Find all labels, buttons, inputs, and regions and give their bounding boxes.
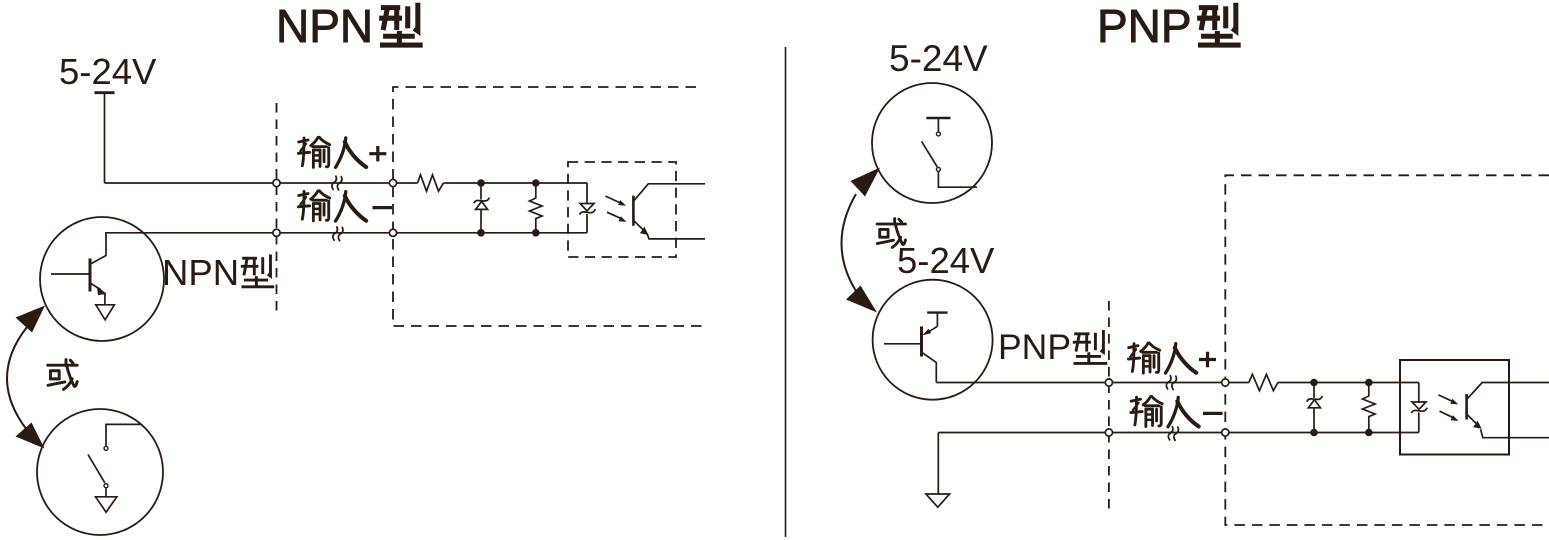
dashed boundary line (connector) (276, 103, 278, 311)
center divider (785, 47, 787, 537)
node input+ at connector (273, 179, 280, 186)
wire: input- rail (105, 232, 587, 234)
LED of optocoupler (1411, 383, 1427, 433)
outer dashed box (driver unit) (1225, 175, 1549, 525)
svg-text:NPN: NPN (276, 0, 373, 52)
or-arrow arc (842, 194, 857, 291)
resistor R2 (shunt) (530, 183, 543, 233)
label 或 (48, 360, 77, 390)
label 5-24V (supply) (59, 51, 157, 92)
LED of optocoupler (580, 183, 596, 233)
sensor circle (switch output) (37, 409, 163, 535)
junction dot (477, 179, 485, 187)
phototransistor Q (633, 184, 705, 239)
ground symbol (926, 494, 950, 507)
wire: input- rail (938, 432, 1419, 434)
wire: input+ rail (105, 182, 418, 184)
resistor R1 (series) (418, 175, 444, 191)
label 5-24V (bottom sensor) (897, 240, 995, 281)
wire break mark on input+ (332, 176, 342, 191)
or-arrow head bottom (16, 423, 45, 449)
node input- at board edge (389, 229, 396, 236)
label NPN型 (162, 252, 239, 293)
light arrow (606, 196, 621, 203)
sensor circle (switch) (872, 83, 992, 203)
wire break mark on input+ (1166, 375, 1176, 390)
wire: input+ rail after resistor (1278, 382, 1419, 384)
label 输入+ (298, 137, 329, 167)
svg-text:5-24V: 5-24V (889, 38, 988, 79)
label 5-24V (top sensor) (889, 38, 988, 79)
label 或 (877, 219, 906, 248)
junction dot (477, 229, 485, 237)
zener diode D1 (474, 183, 490, 233)
NPN transistor in sensor (51, 233, 114, 320)
svg-text:5-24V: 5-24V (59, 51, 157, 92)
or-arrow head top (851, 168, 881, 197)
label 输入- (1131, 397, 1162, 427)
junction dot (532, 229, 540, 237)
label PNP型 (998, 327, 1071, 367)
or-arrow head bottom (846, 286, 877, 313)
light arrow (607, 212, 621, 218)
node input- at connector (1105, 429, 1112, 436)
node input- at connector (273, 229, 280, 236)
wire break mark on input- (333, 226, 343, 241)
svg-text:5-24V: 5-24V (897, 240, 995, 281)
PNP transistor in sensor (884, 312, 948, 383)
node input+ at board edge (389, 179, 396, 186)
title PNP型 (1097, 0, 1192, 52)
junction dot (532, 179, 540, 187)
label 输入- (298, 191, 329, 221)
junction dot (1365, 379, 1373, 387)
resistor R4 (shunt) (1363, 383, 1376, 433)
wire: input+ rail (936, 382, 1249, 384)
node input+ at connector (1105, 379, 1112, 386)
node input- at board edge (1222, 429, 1229, 436)
light arrow (1440, 411, 1454, 417)
optocoupler solid box (1400, 360, 1509, 455)
junction dot (1365, 429, 1373, 437)
junction dot (1310, 429, 1318, 437)
or-arrow head top (16, 306, 46, 333)
wire: supply drop (104, 93, 106, 183)
node input+ at board edge (1222, 379, 1229, 386)
wire break mark on input- (1168, 426, 1178, 441)
switch in sensor (922, 118, 978, 187)
wire: ground drop (937, 433, 939, 495)
switch in sensor (88, 424, 142, 512)
zener diode D2 (1307, 383, 1323, 433)
sensor circle (NPN transistor output) (40, 217, 164, 341)
sensor circle (PNP transistor) (873, 280, 993, 400)
svg-text:PNP: PNP (1097, 0, 1192, 52)
or-arrow arc (7, 327, 27, 430)
label 输入+ (1128, 343, 1159, 373)
optocoupler dashed box (568, 162, 676, 257)
phototransistor Q2 (1467, 383, 1549, 438)
light arrow (1439, 395, 1453, 402)
svg-text:NPN: NPN (162, 252, 239, 293)
svg-text:PNP: PNP (998, 327, 1071, 367)
wire: input+ rail after resistor (444, 182, 588, 184)
junction dot (1310, 379, 1318, 387)
resistor R3 (series) (1249, 374, 1278, 390)
title NPN型 (276, 0, 373, 52)
outer dashed box (driver unit) (393, 87, 706, 326)
dashed boundary line (connector) (1108, 301, 1110, 511)
power terminal bar (95, 91, 115, 94)
